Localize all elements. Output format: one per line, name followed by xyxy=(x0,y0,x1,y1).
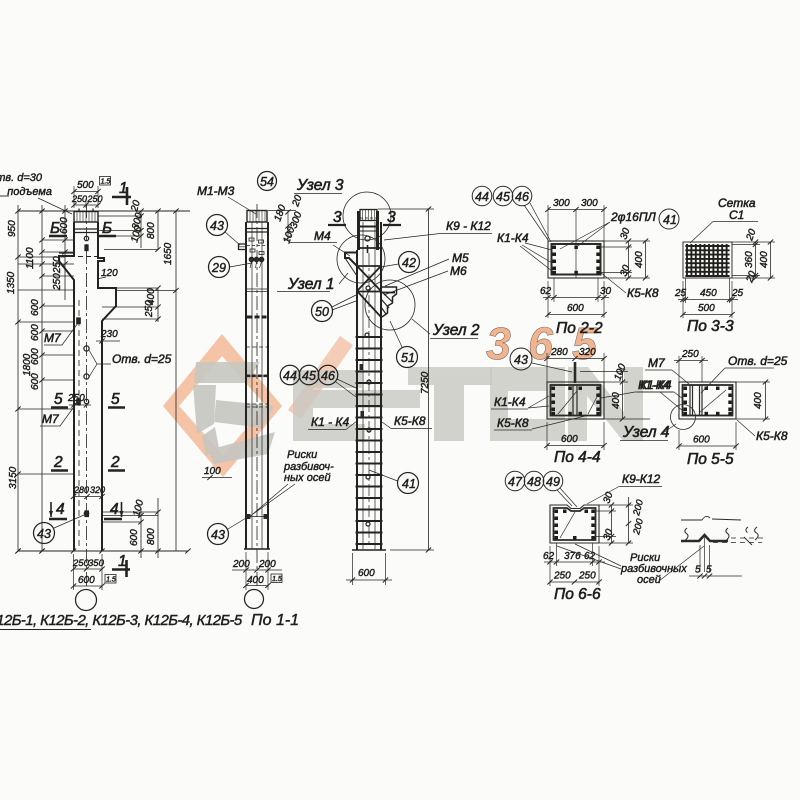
watermark letter E xyxy=(293,370,420,441)
svg-text:250: 250 xyxy=(681,349,699,360)
svg-text:По 3-3: По 3-3 xyxy=(687,318,734,335)
svg-text:200: 200 xyxy=(232,559,250,570)
svg-text:К5-К8: К5-К8 xyxy=(756,429,788,443)
dashed extensions xyxy=(713,538,765,543)
cap hatched plate xyxy=(247,211,267,223)
top dims 280 320 xyxy=(544,347,606,382)
svg-text:К1-К4: К1-К4 xyxy=(494,395,526,409)
detail circle uzel1 xyxy=(337,235,385,283)
section mark 5-5 xyxy=(54,391,120,408)
svg-text:400: 400 xyxy=(634,251,645,268)
svg-text:47: 47 xyxy=(508,475,523,489)
shaft joint lines xyxy=(74,228,98,230)
svg-text:2: 2 xyxy=(110,454,120,471)
callout 50 xyxy=(312,295,357,322)
outer rect xyxy=(679,382,736,419)
left corbel xyxy=(345,253,357,267)
label riski xyxy=(620,552,687,586)
right top dim chain 20/300/100 xyxy=(98,199,145,248)
thick top rails xyxy=(359,211,378,250)
svg-text:376: 376 xyxy=(564,551,581,562)
callout 41 xyxy=(659,209,679,229)
svg-text:62: 62 xyxy=(543,551,555,562)
leader M4 xyxy=(333,245,350,256)
mesh C1 xyxy=(683,242,732,278)
callout 43 top xyxy=(207,215,241,246)
svg-text:ных осей: ных осей xyxy=(284,472,331,484)
baseline xyxy=(18,550,188,552)
svg-text:200: 200 xyxy=(258,559,276,570)
svg-text:250: 250 xyxy=(52,256,63,274)
COLUMN 3 xyxy=(308,192,492,585)
svg-text:Отв. d=25: Отв. d=25 xyxy=(112,352,172,366)
svg-text:По 6-6: По 6-6 xyxy=(554,586,601,603)
hidden line in shaft xyxy=(78,300,80,549)
svg-text:5: 5 xyxy=(54,391,63,408)
detail circle uzel3 xyxy=(343,192,391,240)
svg-text:600: 600 xyxy=(30,373,41,390)
callout 43 bottom col2 xyxy=(208,518,247,545)
svg-text:50: 50 xyxy=(315,305,329,319)
M7 embed upper + hole xyxy=(77,318,80,324)
svg-text:По 1-1: По 1-1 xyxy=(251,612,299,629)
svg-text:25: 25 xyxy=(674,288,687,299)
bottom dim 600 xyxy=(346,553,392,585)
joint pair mid xyxy=(246,288,268,290)
watermark letter T xyxy=(408,367,492,441)
notch verticals xyxy=(700,537,710,572)
SECTION 5-5 xyxy=(637,349,788,468)
svg-text:450: 450 xyxy=(700,288,717,299)
svg-text:600: 600 xyxy=(30,348,41,365)
embeds M1-M3 xyxy=(247,238,266,255)
callout 43 xyxy=(510,348,572,372)
bolt circle upper xyxy=(84,236,88,240)
WATERMARK xyxy=(163,318,643,477)
rebar dots xyxy=(552,387,600,416)
channel M7 xyxy=(690,385,702,416)
svg-text:600: 600 xyxy=(78,575,95,586)
RIGHT DETAIL xyxy=(681,516,765,578)
right dim 7250 xyxy=(378,207,434,553)
SECTION 4-4 xyxy=(491,347,689,466)
SECTION 6-6 xyxy=(505,471,704,603)
detail circle uzel2 xyxy=(365,280,415,330)
svg-text:М1-М3: М1-М3 xyxy=(197,184,235,198)
COLUMN 1 xyxy=(0,172,191,611)
svg-text:К1-К4: К1-К4 xyxy=(497,231,529,245)
svg-text:Б: Б xyxy=(102,220,112,237)
stirrup xyxy=(552,244,601,275)
svg-text:30: 30 xyxy=(600,286,612,297)
callout 54 xyxy=(258,172,277,191)
callout 29 xyxy=(209,257,253,278)
top dim 300 300 xyxy=(545,198,606,241)
svg-text:230: 230 xyxy=(100,329,118,340)
svg-text:С1: С1 xyxy=(729,208,744,222)
svg-text:500: 500 xyxy=(698,303,715,314)
svg-text:950: 950 xyxy=(7,220,18,237)
dashed joint xyxy=(246,346,268,348)
svg-text:300: 300 xyxy=(553,198,570,209)
stirrup xyxy=(683,385,733,416)
inner leader xyxy=(700,390,726,412)
tick rects xyxy=(247,375,268,378)
svg-text:К1-К4: К1-К4 xyxy=(640,378,672,392)
svg-text:43: 43 xyxy=(514,353,528,367)
right dims 100 400 xyxy=(580,362,650,421)
svg-text:1100: 1100 xyxy=(25,247,36,269)
hidden dashes at corbel xyxy=(62,256,98,258)
M7 embed at 5-5 xyxy=(77,399,80,405)
upper wavy line xyxy=(681,516,741,520)
chain tie lines xyxy=(18,240,74,474)
svg-text:Б: Б xyxy=(50,220,60,237)
M7 embed at 4-4 xyxy=(85,511,88,517)
svg-text:1.5: 1.5 xyxy=(101,178,111,185)
callouts 44 45 46 col2 xyxy=(280,365,356,397)
bottom dims 25 450 25 500 xyxy=(674,278,744,318)
svg-text:250: 250 xyxy=(87,194,103,204)
TITLES xyxy=(0,612,299,630)
callouts 44 45 46 xyxy=(472,186,551,242)
svg-text:5: 5 xyxy=(111,391,120,408)
right dims 20 360 20 400 xyxy=(732,227,775,285)
axis circle col1 xyxy=(76,590,97,611)
svg-text:Узел 3: Узел 3 xyxy=(296,177,344,194)
inner leader diagonals xyxy=(558,391,599,414)
svg-text:250: 250 xyxy=(144,300,155,318)
svg-text:К5-К8: К5-К8 xyxy=(394,414,426,428)
left dim chain lines xyxy=(17,205,19,551)
detail circle uzel4 xyxy=(671,405,696,430)
right bracket xyxy=(381,287,397,317)
top dims 500 xyxy=(71,177,111,209)
svg-text:600: 600 xyxy=(59,217,70,234)
bolt xyxy=(365,236,370,241)
svg-text:К5-К8: К5-К8 xyxy=(627,286,659,300)
three anchor dots xyxy=(249,257,253,261)
rung bolts xyxy=(365,286,371,526)
SECTION 3-3 xyxy=(674,196,775,335)
hole d25 2 xyxy=(84,374,89,379)
svg-text:К12Б-1, К12Б-2, К12Б-3, К12Б-4: К12Б-1, К12Б-2, К12Б-3, К12Б-4, К12Б-5 xyxy=(0,612,243,629)
svg-text:400: 400 xyxy=(759,251,770,268)
small embed upper xyxy=(85,245,88,251)
section mark 2-2 xyxy=(53,454,120,471)
col2 bottom dims xyxy=(232,552,282,590)
svg-text:М4: М4 xyxy=(314,229,331,243)
rebar dots xyxy=(555,510,595,540)
emblem stripe right (orange) xyxy=(288,336,353,419)
bottom dim 600 xyxy=(676,422,738,450)
side lug M7 xyxy=(239,244,247,250)
svg-text:400: 400 xyxy=(247,575,264,586)
centerline xyxy=(86,204,88,588)
svg-text:25: 25 xyxy=(731,288,744,299)
svg-text:45: 45 xyxy=(302,369,316,383)
svg-text:К5-К8: К5-К8 xyxy=(497,416,529,430)
svg-text:250: 250 xyxy=(578,571,596,582)
svg-text:Узел 4: Узел 4 xyxy=(622,424,670,441)
svg-text:44: 44 xyxy=(283,369,297,383)
svg-text:М6: М6 xyxy=(450,264,467,278)
svg-text:М7: М7 xyxy=(42,412,60,426)
top datum line xyxy=(18,210,190,212)
surface line with axis notch xyxy=(681,535,728,541)
svg-text:М5: М5 xyxy=(452,251,469,265)
svg-text:5: 5 xyxy=(706,565,712,576)
left dim labels xyxy=(6,217,70,489)
callouts 47 48 49 xyxy=(505,471,577,507)
inner edges xyxy=(251,222,253,549)
cap hatched xyxy=(360,210,377,221)
svg-text:2φ16ПЛ: 2φ16ПЛ xyxy=(610,210,657,224)
svg-text:600: 600 xyxy=(358,568,375,579)
top dim 250 xyxy=(674,349,708,382)
SECTION 2-2 xyxy=(472,186,679,337)
svg-text:1.5: 1.5 xyxy=(272,576,282,583)
callout 42 xyxy=(381,252,420,273)
watermark letter O xyxy=(490,367,565,441)
svg-text:280: 280 xyxy=(550,347,568,358)
top joints xyxy=(358,226,378,228)
svg-text:54: 54 xyxy=(260,175,274,189)
section mark B-B xyxy=(50,220,112,237)
svg-text:280: 280 xyxy=(73,485,89,495)
svg-text:44: 44 xyxy=(475,190,489,204)
divider xyxy=(572,385,574,416)
stirrup xyxy=(551,385,601,416)
svg-text:45: 45 xyxy=(496,190,510,204)
section mark 3-3 xyxy=(328,209,401,226)
right lower dims 600 800 100 xyxy=(102,498,161,558)
svg-text:41: 41 xyxy=(663,213,677,227)
svg-text:4: 4 xyxy=(56,501,65,518)
column cap hatched plate xyxy=(74,209,98,223)
callout 41 col3 xyxy=(369,470,419,494)
svg-text:250: 250 xyxy=(52,273,63,291)
svg-text:49: 49 xyxy=(546,475,560,489)
svg-text:К9-К12: К9-К12 xyxy=(622,472,660,486)
rails xyxy=(357,222,381,550)
right dims xyxy=(600,226,650,280)
watermark letter N xyxy=(568,367,643,441)
axis circle col2 xyxy=(245,590,264,609)
svg-text:подъема: подъема xyxy=(7,186,52,198)
bottom dims 250 350 600 xyxy=(71,554,116,590)
rebar dots xyxy=(684,387,732,416)
svg-text:Отв. d=25: Отв. d=25 xyxy=(728,354,788,368)
svg-text:250: 250 xyxy=(71,194,87,204)
svg-text:Узел 2: Узел 2 xyxy=(432,322,480,339)
dim 5 5 xyxy=(689,575,742,577)
joints xyxy=(246,228,268,230)
svg-text:600: 600 xyxy=(567,303,584,314)
svg-text:5: 5 xyxy=(695,565,701,576)
svg-text:360: 360 xyxy=(744,251,755,268)
svg-text:Узел 1: Узел 1 xyxy=(287,276,335,293)
svg-text:3150: 3150 xyxy=(8,466,19,489)
svg-text:2: 2 xyxy=(53,454,63,471)
lifting hole label top-left xyxy=(0,172,52,198)
svg-text:46: 46 xyxy=(515,190,529,204)
right dims 400 250 at corbel xyxy=(102,286,161,323)
bottom dims 62 376 62 / 250 250 xyxy=(543,543,605,586)
X braces xyxy=(357,266,381,317)
emblem diamond ring (orange) xyxy=(163,334,282,477)
stirrup xyxy=(554,508,596,540)
bottom edge xyxy=(244,548,270,550)
svg-text:250: 250 xyxy=(553,571,571,582)
section flag 1 bottom xyxy=(112,553,130,577)
svg-text:400: 400 xyxy=(753,392,764,409)
outer rect with notch xyxy=(550,505,599,543)
ladder rungs xyxy=(356,337,383,544)
anchor bar M7 xyxy=(574,362,577,383)
svg-text:К1 - К4: К1 - К4 xyxy=(311,415,349,429)
right dim 1650 xyxy=(116,209,179,552)
svg-text:осей: осей xyxy=(637,574,661,586)
svg-text:По 2-2: По 2-2 xyxy=(556,320,603,337)
callout 51 xyxy=(390,321,418,368)
right dim 400 xyxy=(736,380,770,422)
bottom xyxy=(352,549,386,551)
rebar dots xyxy=(553,246,600,275)
svg-text:К9 - К12: К9 - К12 xyxy=(446,219,491,233)
svg-text:800: 800 xyxy=(146,222,157,239)
thick dash marks xyxy=(247,316,267,319)
svg-text:600: 600 xyxy=(30,324,41,341)
svg-text:1.5: 1.5 xyxy=(106,576,116,583)
inner leader xyxy=(560,512,575,538)
svg-text:3: 3 xyxy=(486,318,511,369)
svg-text:3: 3 xyxy=(333,209,342,226)
svg-text:29: 29 xyxy=(211,261,226,275)
svg-text:62: 62 xyxy=(540,286,552,297)
label Setka C1 xyxy=(718,196,756,222)
svg-text:По 4-4: По 4-4 xyxy=(554,449,601,466)
section mark 4-4 with arrows xyxy=(49,501,124,519)
column outline xyxy=(59,222,116,551)
right dim 800 xyxy=(104,209,161,253)
svg-text:43: 43 xyxy=(210,219,224,233)
svg-text:250: 250 xyxy=(67,393,85,404)
section flag 1 top xyxy=(112,180,131,205)
svg-text:51: 51 xyxy=(401,351,415,365)
emblem letter B slabs (grey) xyxy=(193,362,275,464)
chain ticks xyxy=(15,209,67,554)
svg-text:600: 600 xyxy=(693,435,710,446)
small 5 squiggle right xyxy=(744,527,752,545)
svg-text:43: 43 xyxy=(37,527,51,541)
bottom corner marks xyxy=(247,514,268,519)
svg-text:41: 41 xyxy=(402,477,416,491)
svg-text:отв. d=30: отв. d=30 xyxy=(0,172,43,184)
svg-text:320: 320 xyxy=(579,347,596,358)
svg-text:48: 48 xyxy=(527,475,541,489)
watermark 365 (orange) xyxy=(486,318,598,369)
centerline xyxy=(256,204,258,586)
svg-text:600: 600 xyxy=(129,529,140,546)
svg-text:300: 300 xyxy=(581,198,598,209)
svg-text:1650: 1650 xyxy=(163,242,174,265)
svg-text:43: 43 xyxy=(211,528,225,542)
svg-text:600: 600 xyxy=(30,299,41,316)
svg-text:7250: 7250 xyxy=(420,371,431,394)
bottom dims xyxy=(540,278,612,318)
svg-text:М7: М7 xyxy=(44,331,62,345)
label riski xyxy=(283,449,334,484)
svg-text:600: 600 xyxy=(561,434,578,445)
bottom dim 600 xyxy=(544,422,606,450)
callout 43 bottom col1 xyxy=(34,515,85,544)
outer rect xyxy=(547,382,604,419)
svg-text:250: 250 xyxy=(72,558,90,569)
dashed joint 2 xyxy=(246,403,268,405)
outer concrete rect xyxy=(548,241,604,278)
svg-text:500: 500 xyxy=(77,180,94,191)
svg-text:320: 320 xyxy=(90,485,105,495)
corbel plate line xyxy=(59,252,74,254)
break squiggles xyxy=(685,528,688,540)
svg-text:По 5-5: По 5-5 xyxy=(687,451,734,468)
center line xyxy=(575,209,577,278)
svg-text:Риски: Риски xyxy=(287,449,317,461)
svg-text:42: 42 xyxy=(402,256,416,270)
svg-text:350: 350 xyxy=(88,558,105,569)
leader uzel1 xyxy=(339,273,348,284)
dim 280 320 xyxy=(71,485,105,499)
column body xyxy=(246,222,268,549)
hole d25 1 xyxy=(84,346,89,351)
svg-text:М7: М7 xyxy=(648,356,666,370)
svg-text:46: 46 xyxy=(321,369,335,383)
svg-text:3: 3 xyxy=(387,209,396,226)
svg-text:1350: 1350 xyxy=(6,271,17,294)
COLUMN 2 xyxy=(197,172,356,609)
svg-text:800: 800 xyxy=(146,528,157,545)
top right small dims xyxy=(268,193,305,245)
right dims xyxy=(595,490,646,545)
